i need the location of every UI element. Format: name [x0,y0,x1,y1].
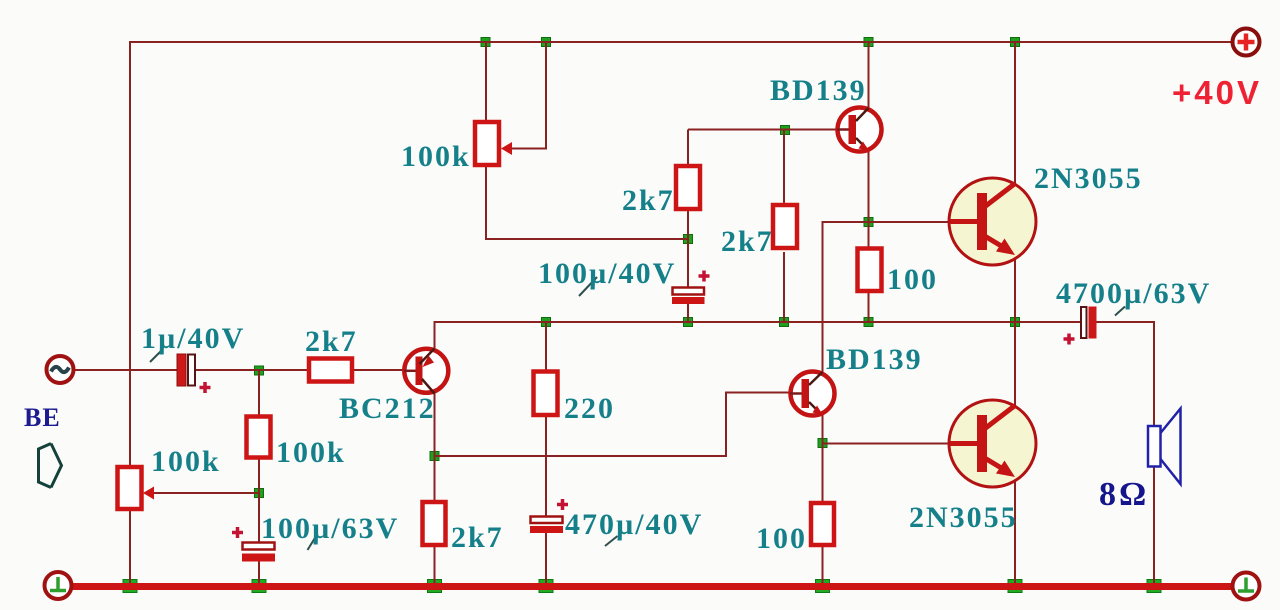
transistor Q2 BD139 (top driver, NPN small) [837,108,882,152]
node top-rail C [864,38,873,47]
plus mark C5 [1064,334,1075,345]
svg-text:100: 100 [887,263,938,296]
ground terminal left [45,572,72,599]
wire BD139a collector to rail [868,42,870,108]
speaker LS1 [1148,409,1181,485]
ground terminal right [1233,573,1260,600]
svg-text:4700µ/63V: 4700µ/63V [1056,277,1211,310]
svg-text:BD139: BD139 [770,74,867,107]
wire speaker to ground rail [1153,466,1155,583]
svg-text:2N3055: 2N3055 [909,501,1018,534]
+40V supply terminal [1233,29,1260,56]
svg-text:100µ/63V: 100µ/63V [261,512,399,545]
ground-rail junction 6 [1008,580,1022,593]
BE input logo glyph [39,444,62,488]
svg-text:BD139: BD139 [826,343,923,376]
svg-text:100k: 100k [401,140,471,173]
svg-text:2k7: 2k7 [305,325,358,358]
wire driver node to Q3 base [823,222,950,371]
ground-rail junction 3 [428,580,442,593]
node mid A [542,318,551,327]
potentiometer P2 (100k left) [118,467,155,509]
node top-rail D [1011,38,1020,47]
svg-text:470µ/40V: 470µ/40V [565,508,703,541]
node top-rail B [542,38,551,47]
wire R-2k7d bottom to rail [434,544,436,583]
svg-text:BE: BE [24,403,61,432]
capacitor C2 (100u/40V, horizontal plates) [672,288,705,305]
wire pot1 top lead [485,42,487,121]
svg-text:8Ω: 8Ω [1099,476,1149,513]
leader line C3 label [308,537,316,550]
source terminal BE (sine input) [47,356,74,383]
node base BD139 top [781,126,790,135]
wire Q3 collector from rail [1014,42,1016,184]
wire node to R-2k7c [259,369,307,371]
svg-text:100k: 100k [151,445,221,478]
resistor R-2k7a (top, 2k7) [676,166,700,209]
svg-text:100µ/40V: 100µ/40V [538,257,676,290]
capacitor C1 (1u/40V input, vertical plates) [177,354,195,386]
resistor R100b (bottom 100) [811,503,834,545]
ground rail (thick bright red) [72,583,1233,590]
wire R220 top lead [545,322,547,370]
wire R-2k7d top lead [434,456,436,503]
wire pot2 wiper [154,492,259,494]
wire BD139b emitter to node [822,415,824,444]
node driver emitter [864,218,873,227]
capacitor C4 (470u/40V, horizontal plates) [530,517,563,534]
plus mark C1 [200,382,211,393]
svg-text:2k7: 2k7 [451,521,504,554]
wire R-2k7b bottom to mid [783,252,785,322]
wire BD139a base [688,129,836,131]
ground-rail junction 4 [539,580,553,593]
resistor R100a (top 100) [858,249,882,292]
wire cap4700 to speaker [1096,322,1154,426]
svg-text:220: 220 [564,392,615,425]
wire pot1 wiper to top rail [511,42,546,149]
transistor Q3 2N3055 (top power) [949,178,1036,265]
leader line C5 label [1115,307,1125,316]
node wiper2 [255,489,264,498]
potentiometer P1 (100k top) [475,122,512,165]
ground-rail junction 7 [1147,580,1161,593]
node mid B [684,318,693,327]
wire R-2k7a chain [687,130,689,166]
resistor R220 [534,372,558,416]
svg-text:100: 100 [756,522,807,555]
wire cap100u40 bottom to mid [687,303,689,322]
wire input source to cap [75,369,178,371]
wire R-2k7b top lead [783,130,785,205]
node top-rail A [481,38,490,47]
wire R100b top lead [822,444,824,503]
wire node 868-222 horizontal [869,221,901,223]
svg-text:1µ/40V: 1µ/40V [141,322,245,355]
plus mark C2 [699,271,710,282]
wire BD139b collector [822,371,824,372]
leader line C2 label [579,277,597,296]
transistor Q4 2N3055 (bottom power) [949,400,1036,487]
wire R-2k7c to BC212 base [354,369,403,371]
wire pot1 bottom to node [486,166,688,239]
capacitor C5 (4700u/63V, vertical plates) [1081,307,1097,339]
wire R100b bottom to rail [822,547,824,583]
wire top rail +40V [130,42,1233,583]
wire output to cap4700 [1015,321,1081,323]
wire feedback run to driver base [435,393,790,457]
node input bias [255,366,264,375]
node mid C [780,318,789,327]
svg-text:100k: 100k [276,436,346,469]
wire cap470 bottom to rail [545,531,547,583]
resistor R-2k7b (driver, 2k7) [773,205,797,248]
leader line C1 label [150,349,163,362]
capacitor C3 (100u/63V, horizontal plates) [242,543,275,562]
wire Q3 emitter to output node [1014,259,1016,406]
ground-rail junction 2 [252,580,266,593]
wire BD139a emitter down to R100a [868,151,870,247]
svg-text:2N3055: 2N3055 [1034,162,1143,195]
wire cap1u to node [195,369,307,371]
ground-rail junction 5 [816,580,830,593]
resistor R100k-b (bias) [247,417,271,458]
wire R220 bottom to cap470 [545,417,547,517]
wire node to Q4 base [823,443,950,445]
node vas collector [430,452,439,461]
wire R100k-b vertical [258,370,260,415]
wire cap100u63 bottom to rail [258,561,260,583]
resistor R-2k7c (input, horizontal) [309,359,352,382]
transistor Q1 BC212 (PNP small) [404,349,448,394]
node pot1 bottom [684,235,693,244]
svg-text:BC212: BC212 [339,392,436,425]
wire R100a bottom to mid [868,293,870,322]
node driver2 emitter [818,439,827,448]
svg-text:2k7: 2k7 [721,225,774,258]
plus mark C3 [232,527,243,538]
ground-rail junction 1 [123,580,137,593]
wire R100k-b bottom to wiper node [258,459,260,543]
plus mark C4 [557,499,568,510]
wire BC212 emitter to mid rail [435,322,1082,348]
wire BC212 collector down [434,394,436,457]
wire +40V terminal stub [1226,41,1233,43]
node mid D [864,318,873,327]
leader line C4 label [605,536,618,546]
transistor Q5 BD139 (bottom driver, NPN small) [790,372,835,416]
svg-text:2k7: 2k7 [622,184,675,217]
node output [1011,318,1020,327]
wire Q4 emitter to ground rail [1014,481,1016,583]
resistor R-2k7d (bottom 2k7) [423,502,446,545]
svg-text:+40V: +40V [1172,74,1262,111]
wire R-2k7a bottom to cap [687,211,689,289]
